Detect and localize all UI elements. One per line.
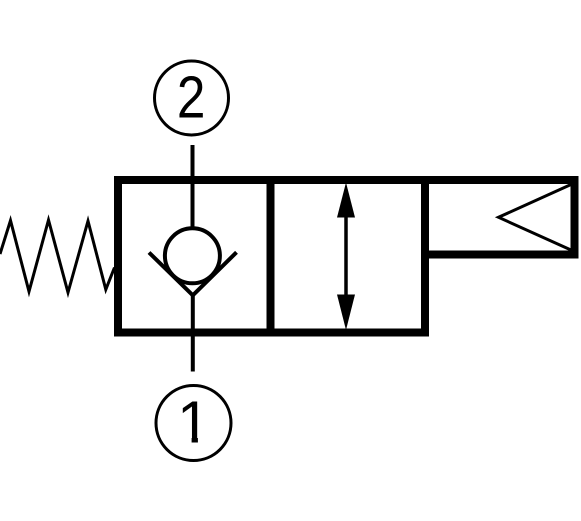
flow arrow head up — [337, 183, 355, 218]
flow arrow head down — [337, 295, 355, 331]
check valve seat — [149, 252, 237, 295]
position divider — [267, 176, 275, 337]
valve body (2-position envelope) — [118, 180, 425, 333]
wire valve to port 1 — [191, 296, 195, 372]
svg-text:2: 2 — [177, 64, 206, 130]
pilot arrowhead chevron — [499, 185, 572, 251]
svg-text:1: 1 — [177, 390, 210, 456]
port circle 2 — [155, 61, 229, 135]
port circle 1 — [156, 386, 231, 461]
check valve ball — [165, 228, 220, 283]
flow arrow shaft — [344, 212, 348, 300]
wire port 2 to valve body — [191, 145, 195, 227]
return spring — [0, 220, 115, 293]
pilot actuator box — [425, 180, 575, 255]
